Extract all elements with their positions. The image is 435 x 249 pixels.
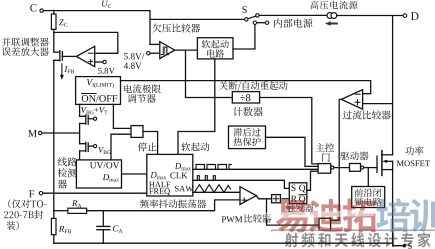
wire C to upper-right corner: [43, 11, 150, 45]
sense box bottom: [319, 218, 331, 230]
wire M to transistor chain: [42, 132, 80, 134]
label current limit adjuster line1: [124, 84, 161, 93]
wire C node down to resistor Zc: [53, 10, 55, 14]
MOSFET drain stub: [382, 154, 393, 156]
wire Zc to shunt transistor: [53, 29, 55, 52]
wire Dmax from detector to oscillator: [122, 173, 147, 175]
label power l1: [405, 146, 423, 155]
label internal supply: [274, 19, 312, 28]
wire main gate to driver: [334, 167, 350, 169]
overline over Qbar: [299, 194, 306, 196]
watermark brand text red part: [276, 199, 377, 233]
label stop net: [138, 142, 157, 151]
label PWM comparator latin: [222, 216, 243, 222]
label line detector l1: [58, 157, 77, 166]
terminal M: [39, 131, 42, 134]
comparator U2 undervoltage triangle: [160, 42, 175, 59]
pin label D: [411, 12, 419, 20]
label 5.8V/: [124, 53, 144, 59]
terminal Q2 gate: [94, 117, 97, 120]
label 5.8V ref: [98, 68, 115, 74]
label Q output: [299, 185, 305, 193]
wire SAW row to PWM comparator: [193, 191, 240, 193]
watermark underline: [271, 229, 435, 231]
bubble driver output: [361, 166, 364, 169]
hysteresis symbol inside comparator: [161, 47, 168, 54]
wire soft-start to switch contact: [233, 24, 255, 49]
wire branch to leading edge blanking: [367, 168, 369, 187]
label thermal protection line1: [233, 128, 260, 137]
label soft-start circuit line1: [202, 40, 229, 49]
hysteresis symbol fill: [163, 47, 165, 54]
wire summing to flip-flop R: [282, 198, 289, 200]
wire summing box to UV OV detector: [111, 134, 131, 160]
capacitor CA plates: [97, 226, 110, 229]
wire current source to D: [337, 15, 403, 17]
wire to resistor RA: [54, 210, 68, 212]
label IFB: [64, 66, 74, 73]
label undervoltage comparator: [152, 24, 200, 33]
terminal D: [403, 14, 407, 18]
op-amp U1 error amplifier triangle: [76, 46, 94, 66]
block frequency jitter oscillator: [147, 154, 193, 196]
label Qbar output: [299, 196, 305, 204]
wire Q2 gate lead: [88, 118, 93, 120]
label overcurrent comparator: [343, 110, 391, 119]
wire drain rail down: [392, 16, 394, 155]
wire plus input to 5.8V ref: [95, 61, 103, 63]
label flip-flop: [286, 203, 313, 212]
transistor Q2 channel jog: [80, 115, 86, 124]
wire driver to MOSFET gate: [364, 167, 377, 169]
gate U5 main control gate: [318, 164, 331, 174]
wire branch to S switch: [150, 18, 245, 20]
overline over ON: [82, 93, 97, 95]
plus sign error amp: [89, 59, 93, 63]
wire rail C down left side: [53, 60, 55, 218]
label divide by 8: [240, 94, 250, 101]
transistor Q1 gate bar: [61, 52, 63, 61]
label FREQ: [149, 188, 170, 195]
block current limit adjuster: [76, 77, 121, 105]
block UV/OV line detector: [76, 160, 121, 188]
wire junction down to blanking sense box: [267, 199, 320, 225]
junction dot S bottom: [403, 244, 406, 247]
label current limit adjuster line2: [127, 94, 155, 103]
watermark brand text blue part: [376, 198, 435, 232]
wire ON/OFF right drop to summing box: [113, 104, 131, 128]
label RA: [72, 200, 82, 207]
pin label S bottom: [408, 243, 412, 249]
waveform sawtooth: [195, 185, 231, 193]
plus sign overcurrent comparator: [355, 100, 360, 105]
arrow IFB current: [61, 64, 63, 76]
wire capacitor CA top: [102, 211, 104, 227]
terminal F: [39, 192, 42, 195]
terminal internal supply: [265, 21, 268, 24]
wire switch to current source: [259, 14, 327, 16]
block soft-start circuit: [197, 38, 233, 59]
label RFB: [59, 226, 71, 233]
wire counter output to main gate top: [260, 98, 319, 164]
label S input: [291, 185, 295, 191]
resistor RA: [68, 208, 87, 213]
label main gate l2: [322, 153, 330, 162]
label soft-start net: [181, 142, 209, 151]
wire to internal supply tap: [257, 22, 266, 24]
wire Q2 to Q3: [79, 124, 81, 144]
label frequency jitter oscillator: [140, 199, 206, 208]
wire flip-flop Q to main gate: [307, 171, 318, 190]
label Zc: [59, 19, 67, 26]
label package note l2: [4, 210, 43, 219]
switch contact left: [245, 18, 248, 21]
transistor Q3 gate bar: [87, 143, 89, 152]
resistor RFB: [51, 218, 56, 234]
switch blade: [248, 16, 256, 19]
label driver: [340, 151, 368, 160]
label HALF: [149, 182, 170, 187]
flip-flop U4: [289, 183, 307, 204]
wire branch comparator output down to divide-by-8 counter: [186, 50, 233, 97]
wire stop line to oscillator: [143, 132, 158, 155]
wire F to oscillator: [43, 192, 147, 194]
switch contact lower: [253, 21, 256, 24]
wire CLK row to flip-flop S: [193, 180, 289, 188]
transistor Q4 MOSFET channel bar: [381, 151, 383, 176]
label high-voltage current source: [310, 1, 357, 10]
arrow current direction: [325, 21, 338, 25]
MOSFET body stub: [386, 160, 392, 162]
transistor Q4 MOSFET gate bar: [376, 156, 378, 172]
label VBG: [98, 147, 110, 154]
label shutdown auto-restart: [219, 81, 287, 91]
wire capacitor CA bottom: [102, 230, 104, 244]
block divide-by-8 counter: [232, 92, 259, 103]
label V(ILIMIT): [87, 79, 114, 88]
wire overcurrent output down to sense box: [331, 99, 342, 220]
junction box line sense: [131, 126, 143, 138]
wire ON/OFF box down to transistor Q2: [79, 104, 81, 116]
pin label M: [28, 130, 37, 137]
transistor Q3 channel jog: [80, 142, 86, 151]
watermark slogan text: [285, 232, 431, 247]
label ON/OFF: [82, 95, 117, 102]
label counter: [233, 107, 263, 116]
label soft-start circuit line2: [207, 49, 224, 58]
MOSFET body arrow: [382, 160, 387, 163]
wire comparator output to soft-start: [175, 49, 198, 51]
watermark white streak: [266, 210, 374, 219]
label error amplifier line2: [2, 47, 49, 56]
gate U6 driver: [350, 164, 361, 172]
current source symbol high-voltage: [327, 13, 337, 19]
label R input: [291, 196, 297, 202]
pin label S top: [242, 6, 246, 13]
MOSFET source stub: [382, 169, 393, 171]
minus sign error amp: [88, 52, 93, 54]
MOSFET body-source tie: [392, 161, 394, 169]
wire stub into undervoltage comparator: [150, 43, 160, 45]
label Dmax in detector: [103, 174, 119, 181]
terminal Q3 gate: [94, 145, 97, 148]
wire feedback branch to error amp inverting input: [54, 32, 118, 53]
comparator U7 overcurrent triangle: [341, 90, 362, 110]
label thermal protection line2: [234, 137, 261, 146]
wire RA to PWM plus input: [87, 200, 240, 211]
label CA: [113, 225, 123, 232]
label MOSFET: [397, 160, 430, 166]
label 4.8V: [124, 63, 142, 69]
wire threshold input: [150, 52, 160, 54]
label UV/OV: [90, 162, 119, 168]
transistor Q2 gate bar: [87, 116, 89, 125]
label Dmax left: [150, 172, 166, 179]
label line detector l2: [58, 168, 77, 177]
resistor Zc: [51, 14, 56, 29]
label SAW: [175, 186, 193, 192]
block leading edge blanking: [352, 187, 385, 208]
terminal C: [40, 9, 43, 12]
wire Q3 gate lead: [88, 145, 93, 147]
minus sign overcurrent comparator: [355, 93, 360, 95]
label main gate l1: [316, 143, 334, 152]
wire bottom source rail: [54, 242, 393, 244]
wire error amp output to Q1 gate: [62, 55, 76, 57]
wire Dmax waveform row to main gate: [193, 168, 318, 170]
wire source down to S pin: [393, 170, 403, 246]
wire Q3 down to UV OV detector: [79, 151, 81, 160]
label VBG+VT: [81, 107, 107, 114]
block hysteretic thermal protection: [229, 126, 266, 149]
label package note l1: [8, 199, 46, 208]
wire overcurrent plus input to drain rail: [363, 103, 393, 105]
summing box plus: [272, 195, 281, 203]
label blanking line1: [355, 188, 382, 197]
label Dmax right: [175, 163, 191, 170]
label PWM comparator cjk: [244, 214, 271, 223]
terminal 5.8V/4.8V threshold: [147, 52, 150, 55]
net label Uc: [102, 1, 111, 8]
label package note l3: [7, 221, 19, 230]
pin label C: [30, 4, 36, 11]
waveform CLK pulses: [197, 176, 215, 181]
transistor Q1 shunt channel jog: [54, 51, 60, 61]
plus sign in summing box: [273, 196, 278, 201]
wire RFB to bottom rail: [53, 235, 55, 244]
wire thermal protection to main gate: [266, 137, 319, 166]
wire current limit setpoint to overcurrent comparator: [121, 81, 371, 94]
wire PWM output: [256, 196, 270, 199]
pin label F: [29, 190, 34, 197]
terminal 5.8V reference: [103, 60, 106, 63]
wire soft-start bottom to oscillator: [178, 59, 215, 154]
label line detector l3: [58, 180, 67, 189]
plus sign PWM comparator: [242, 198, 247, 202]
bubble main gate output: [331, 166, 334, 169]
arrowhead IFB: [60, 75, 64, 80]
comparator U3 PWM triangle: [240, 187, 256, 205]
label blanking line2: [354, 198, 381, 207]
waveform Dmax square wave: [196, 165, 231, 170]
label shunt regulator line1: [2, 38, 49, 47]
label CLK: [170, 172, 187, 178]
switch contact right: [256, 14, 259, 17]
